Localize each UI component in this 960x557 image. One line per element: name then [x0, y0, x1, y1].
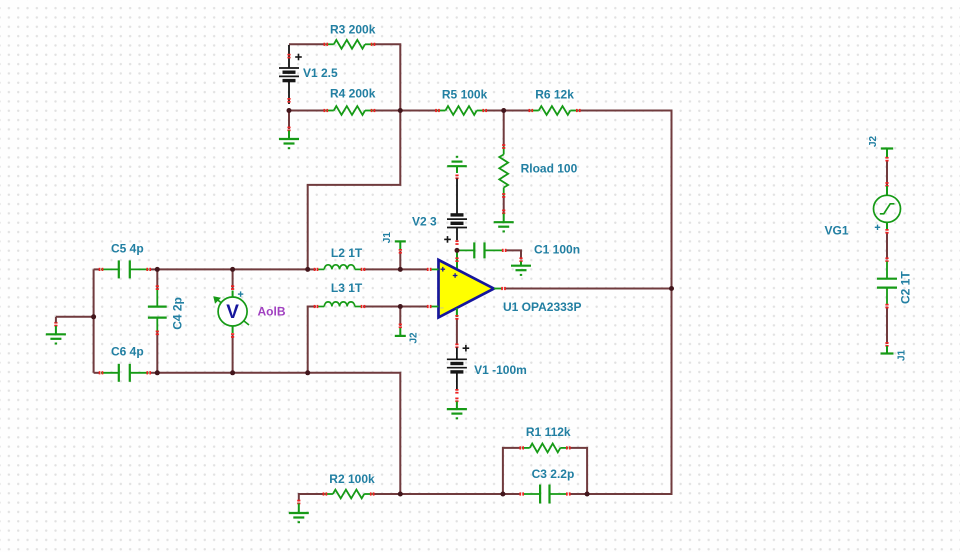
label C5 4p: [111, 242, 144, 256]
svg-text:R1 112k: R1 112k: [526, 425, 571, 439]
wire L3 to -input node: [363, 306, 428, 308]
svg-text:J1: J1: [382, 232, 393, 244]
junction C5/C4 top: [155, 267, 160, 272]
battery V2 3: [447, 175, 467, 245]
voltmeter arrow: [217, 299, 250, 325]
label C1 100n: [534, 243, 580, 257]
resistor R2: [323, 490, 375, 499]
meter bottom pin: [231, 326, 234, 338]
capacitor C3: [519, 485, 570, 504]
svg-text:J2: J2: [868, 135, 879, 147]
wire Rload to ground: [503, 196, 505, 213]
op-amp negative supply pin: [455, 308, 458, 320]
wire op-amp to V1 -100m: [456, 319, 458, 345]
capacitor C6: [99, 364, 151, 382]
wire L3 left corner leg: [308, 307, 316, 373]
ground under Rload: [494, 210, 514, 233]
resistor R4: [324, 106, 376, 115]
label J2 (right): [868, 135, 879, 147]
meter top pin: [231, 285, 234, 297]
wire R3 row right + drop to node R3/R4/R5: [373, 44, 400, 110]
capacitor C4: [148, 285, 167, 335]
svg-text:V2 3: V2 3: [412, 214, 437, 228]
wire C5 left corner: [94, 268, 101, 270]
svg-text:AolB: AolB: [258, 305, 286, 319]
resistor R5: [435, 106, 487, 115]
svg-text:R4 200k: R4 200k: [330, 87, 376, 101]
wire meter top stem: [232, 269, 234, 289]
svg-text:C1 100n: C1 100n: [534, 243, 580, 257]
op-amp + input mark: [441, 267, 446, 272]
wire C1 to ground corner: [505, 250, 521, 259]
label C4 2p: [171, 297, 185, 330]
label J2 (left): [409, 332, 420, 344]
label C2 1T: [899, 271, 913, 304]
op-amp output pin: [494, 287, 506, 290]
wire V1 to R4 segment: [289, 110, 326, 112]
ground (inverted) above V2: [447, 156, 467, 173]
label C3 2.2p: [532, 467, 575, 481]
battery V1 2.5: [279, 45, 299, 104]
capacitor C2: [877, 257, 897, 308]
wire feedback left riser: [503, 448, 521, 494]
wire R3 row left: [289, 43, 326, 45]
wire C5 to C4 node: [150, 268, 158, 270]
svg-text:R6 12k: R6 12k: [535, 88, 574, 102]
junction +input/J1: [398, 267, 403, 272]
plus of V1 -100m: [463, 345, 470, 352]
junction R2/feedback: [398, 492, 403, 497]
inductor L3: [314, 302, 366, 308]
svg-text:VG1: VG1: [825, 224, 849, 238]
label V1 2.5: [303, 66, 338, 80]
label Rload 100: [521, 162, 578, 176]
wire meter bottom to L3 leg: [233, 372, 308, 374]
svg-text:J2: J2: [409, 332, 420, 344]
svg-text:R2 100k: R2 100k: [329, 472, 375, 486]
ground under V1 node: [279, 127, 299, 150]
wire C4 node to meter node: [157, 268, 232, 270]
wire Rload stem: [503, 111, 505, 147]
op-amp - input pin: [427, 305, 439, 308]
label V1 -100m: [474, 363, 527, 377]
svg-text:L3 1T: L3 1T: [331, 281, 363, 295]
wire L2 to +input node: [363, 268, 428, 270]
wire C6 row to mid vertical and down: [308, 373, 401, 494]
op-amp supply + mark: [453, 273, 458, 278]
op-amp - input mark: [440, 307, 443, 308]
ground under R2: [289, 500, 309, 524]
terminal J1 (left): [395, 241, 406, 253]
label R4 200k: [330, 87, 376, 101]
resistor R1: [519, 444, 570, 453]
wire node A to L2: [308, 268, 316, 270]
wire R2 to C3 node: [372, 493, 520, 495]
resistor R3: [324, 40, 376, 49]
ground left branch: [46, 317, 66, 345]
svg-text:C3 2.2p: C3 2.2p: [532, 467, 575, 481]
junction C4 bottom: [155, 370, 160, 375]
label AolB: [258, 305, 286, 319]
wire left block vertical: [93, 269, 95, 372]
junction -input/J2: [398, 304, 403, 309]
junction node A top row: [305, 267, 310, 272]
generator VG1: [874, 182, 901, 233]
ground under V1 -100m: [447, 398, 467, 420]
junction L3 leg/C6 row: [305, 370, 310, 375]
svg-text:Rload 100: Rload 100: [521, 162, 578, 176]
wire op-amp output row: [505, 288, 672, 290]
wire C6 left corner: [94, 372, 101, 374]
svg-text:C5 4p: C5 4p: [111, 242, 144, 256]
junction V2/C1/op-amp supply: [455, 248, 460, 253]
wire mid vertical jog to node A: [308, 111, 401, 270]
junction meter top: [230, 267, 235, 272]
junction output/right rail: [669, 286, 674, 291]
wire J1 stub (left): [399, 251, 401, 269]
svg-text:L2 1T: L2 1T: [331, 246, 363, 260]
terminal J2 (right): [881, 149, 893, 162]
label R6 12k: [535, 88, 574, 102]
op-amp positive supply pin: [455, 250, 458, 268]
wire R2 corner to ground: [298, 493, 300, 502]
svg-text:V1 2.5: V1 2.5: [303, 66, 338, 80]
wire V1 node to ground stub: [288, 111, 290, 130]
resistor Rload: [499, 144, 508, 198]
label R1 112k: [526, 425, 571, 439]
junction R3/R4/R5: [398, 108, 403, 113]
svg-text:C6 4p: C6 4p: [111, 345, 144, 359]
wire C4 top stem: [156, 269, 158, 289]
label V2 3: [412, 214, 437, 228]
svg-text:C4 2p: C4 2p: [171, 297, 185, 330]
op-amp U1 OPA2333P: [439, 260, 494, 318]
svg-text:R5 100k: R5 100k: [442, 88, 488, 102]
wire R6 to right rail: [578, 110, 671, 112]
label R3 200k: [330, 23, 376, 37]
label J1 (left): [382, 232, 393, 244]
label U1 OPA2333P: [503, 300, 582, 314]
wire J2 stub (left): [399, 307, 401, 327]
plus of V2 3: [444, 236, 451, 243]
wire feedback right riser: [570, 448, 588, 494]
wire meter bottom stem: [232, 335, 234, 373]
wire C3 to right rail: [570, 493, 672, 495]
wire left ground branch: [56, 316, 94, 318]
svg-text:J1: J1: [897, 349, 908, 361]
svg-text:U1 OPA2333P: U1 OPA2333P: [503, 300, 582, 314]
label R2 100k: [329, 472, 375, 486]
label R5 100k: [442, 88, 488, 102]
terminal J2 (left): [395, 324, 406, 336]
wire right rail vertical: [671, 110, 673, 496]
label VG1: [825, 224, 849, 238]
junction V1/R4: [287, 108, 292, 113]
wire VG1 top segment: [886, 160, 888, 185]
wire R2 left segment: [299, 493, 325, 495]
meter + mark: [238, 291, 243, 296]
inductor L2: [314, 265, 366, 271]
svg-text:V: V: [226, 302, 239, 323]
ground right of C1: [511, 257, 531, 276]
junction left ground: [91, 314, 96, 319]
wire C4 bottom stem: [156, 332, 158, 373]
junction C3 right: [585, 492, 590, 497]
terminal J1 (right): [881, 342, 894, 353]
label J1 (right): [897, 349, 908, 361]
capacitor C5: [99, 260, 151, 278]
junction C3 left: [500, 492, 505, 497]
wire meter node to node A: [233, 268, 308, 270]
battery V1 -100m: [447, 344, 467, 394]
wire C4 bottom to meter bottom: [157, 372, 232, 374]
op-amp + input pin: [427, 268, 439, 271]
resistor R6: [529, 106, 581, 115]
plus of V1 2.5: [295, 54, 302, 61]
junction R5/R6/Rload: [501, 108, 506, 113]
svg-text:C2 1T: C2 1T: [899, 271, 913, 304]
junction meter bottom: [230, 370, 235, 375]
wire R4 to R5 segment: [373, 110, 438, 112]
wire C6 to C4 bottom node: [150, 372, 158, 374]
label C6 4p: [111, 345, 144, 359]
svg-text:R3 200k: R3 200k: [330, 23, 376, 37]
voltmeter AolB: [213, 296, 247, 326]
wire C2 to J1 segment: [886, 307, 888, 345]
wire VG1 to C2 segment: [886, 232, 888, 260]
svg-text:V1 -100m: V1 -100m: [474, 363, 527, 377]
VG1 + mark: [875, 225, 880, 230]
capacitor C1: [457, 242, 507, 258]
label L3 1T: [331, 281, 363, 295]
wire R5 to R6 segment: [485, 110, 531, 112]
label L2 1T: [331, 246, 363, 260]
